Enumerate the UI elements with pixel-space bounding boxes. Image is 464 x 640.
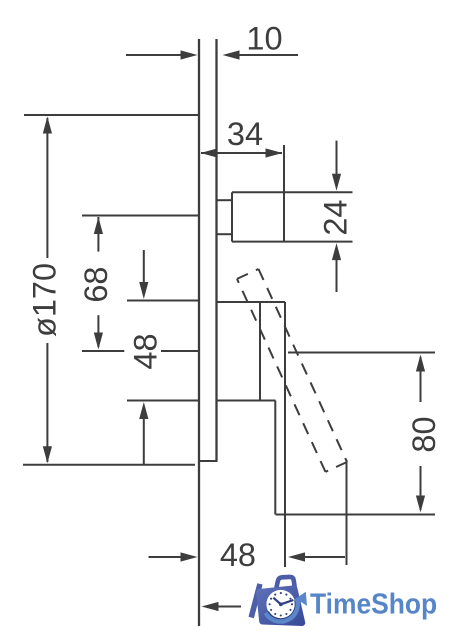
dim 48-left upper arrow line <box>143 250 145 283</box>
ext line 68 bottom / 48 area, right part <box>161 350 199 352</box>
dim 48-bottom left arrow line <box>149 556 182 558</box>
ext line 48-left top <box>127 300 199 302</box>
dim line 68 upper segment <box>97 217 99 252</box>
logo clock face <box>266 590 295 619</box>
logo swoosh arrow <box>266 599 298 622</box>
ext line 48-left bottom (left of plate) <box>127 400 199 402</box>
dim 80 upper arrow line <box>420 357 422 402</box>
dim 48-left upper arrowhead <box>139 282 148 299</box>
dia170 bottom arrowhead <box>43 446 52 463</box>
dim line 68 lower segment <box>97 315 99 347</box>
svg-text:TimeShop: TimeShop <box>310 587 437 619</box>
logo bag body <box>259 589 302 623</box>
dim line dia170 upper segment <box>46 118 48 258</box>
logo bag handle <box>276 577 294 588</box>
svg-text:10: 10 <box>246 21 282 57</box>
logo stripe <box>249 583 263 618</box>
logo clock ticks <box>269 592 294 617</box>
cartridge box left edge <box>231 192 233 241</box>
wall plate left line <box>198 39 200 626</box>
dim 48-left lower arrowhead <box>139 402 148 419</box>
cartridge box bottom / 24 bottom ext <box>232 241 353 243</box>
dim 80 lower arrowhead <box>416 496 425 513</box>
svg-text:ø170: ø170 <box>27 263 63 337</box>
spout front edge <box>274 401 276 515</box>
dim 80 lower arrow line <box>420 466 422 510</box>
ext line 68 top <box>82 215 199 217</box>
dim 10 left arrowhead <box>181 50 198 59</box>
dim 10 left arrow line <box>126 54 181 56</box>
dim 48-left lower arrow tail <box>143 418 145 464</box>
valve body inner vertical <box>259 302 261 401</box>
ext line dia170 top <box>24 114 199 116</box>
dim 34 line <box>201 152 282 154</box>
handle dashed outline <box>237 269 347 472</box>
ext line 34 right / cartridge right edge <box>283 145 285 242</box>
dim 10 right arrowhead <box>223 50 240 59</box>
spout bottom / 80 bottom ext <box>276 514 436 516</box>
wall position arrow line <box>218 606 241 608</box>
dim 24 lower arrow line <box>336 258 338 292</box>
dim 24 lower arrowhead <box>332 243 341 260</box>
logo clock hands <box>273 598 293 606</box>
svg-text:24: 24 <box>318 200 354 236</box>
svg-text:48: 48 <box>127 333 163 369</box>
svg-text:34: 34 <box>227 116 263 152</box>
wall position arrowhead <box>202 602 219 611</box>
svg-text:48: 48 <box>220 537 256 573</box>
svg-text:68: 68 <box>78 267 114 303</box>
wall plate bottom edge <box>198 460 218 462</box>
cartridge stub bottom <box>217 233 233 235</box>
cartridge box top / 24 top ext <box>232 191 353 193</box>
dim 80 upper arrowhead <box>416 355 425 372</box>
valve body bottom step <box>217 400 276 402</box>
cartridge stub top <box>217 199 233 201</box>
dim 48-bottom left arrowhead <box>181 552 198 561</box>
dim 34 right arrowhead <box>266 148 283 157</box>
80 top ext <box>288 352 435 354</box>
dim 68 lower arrowhead <box>94 333 103 350</box>
TimeShop logo <box>249 577 438 623</box>
dim 34 left arrowhead <box>201 148 218 157</box>
valve body top edge <box>217 301 286 303</box>
wall plate right line <box>215 39 217 461</box>
valve body right edge / ext <box>284 302 286 567</box>
svg-text:80: 80 <box>406 416 442 452</box>
dim line dia170 lower segment <box>46 343 48 462</box>
ext line dia170 bottom <box>23 464 195 466</box>
ext line 68 bottom / 48 area, left part <box>82 350 124 352</box>
dim 10 right arrow line <box>239 54 298 56</box>
handle tip ext line <box>346 460 348 565</box>
dim 48-bottom right arrowhead <box>288 552 305 561</box>
dim 48-bottom right arrow line <box>305 556 345 558</box>
logo swoosh shadow crescent <box>268 600 297 619</box>
dia170 top arrowhead <box>43 117 52 134</box>
dim 24 upper arrow line <box>336 141 338 176</box>
dim 24 upper arrowhead <box>332 174 341 191</box>
dim 68 upper arrowhead <box>94 217 103 234</box>
logo swoosh arrowhead <box>296 592 307 606</box>
